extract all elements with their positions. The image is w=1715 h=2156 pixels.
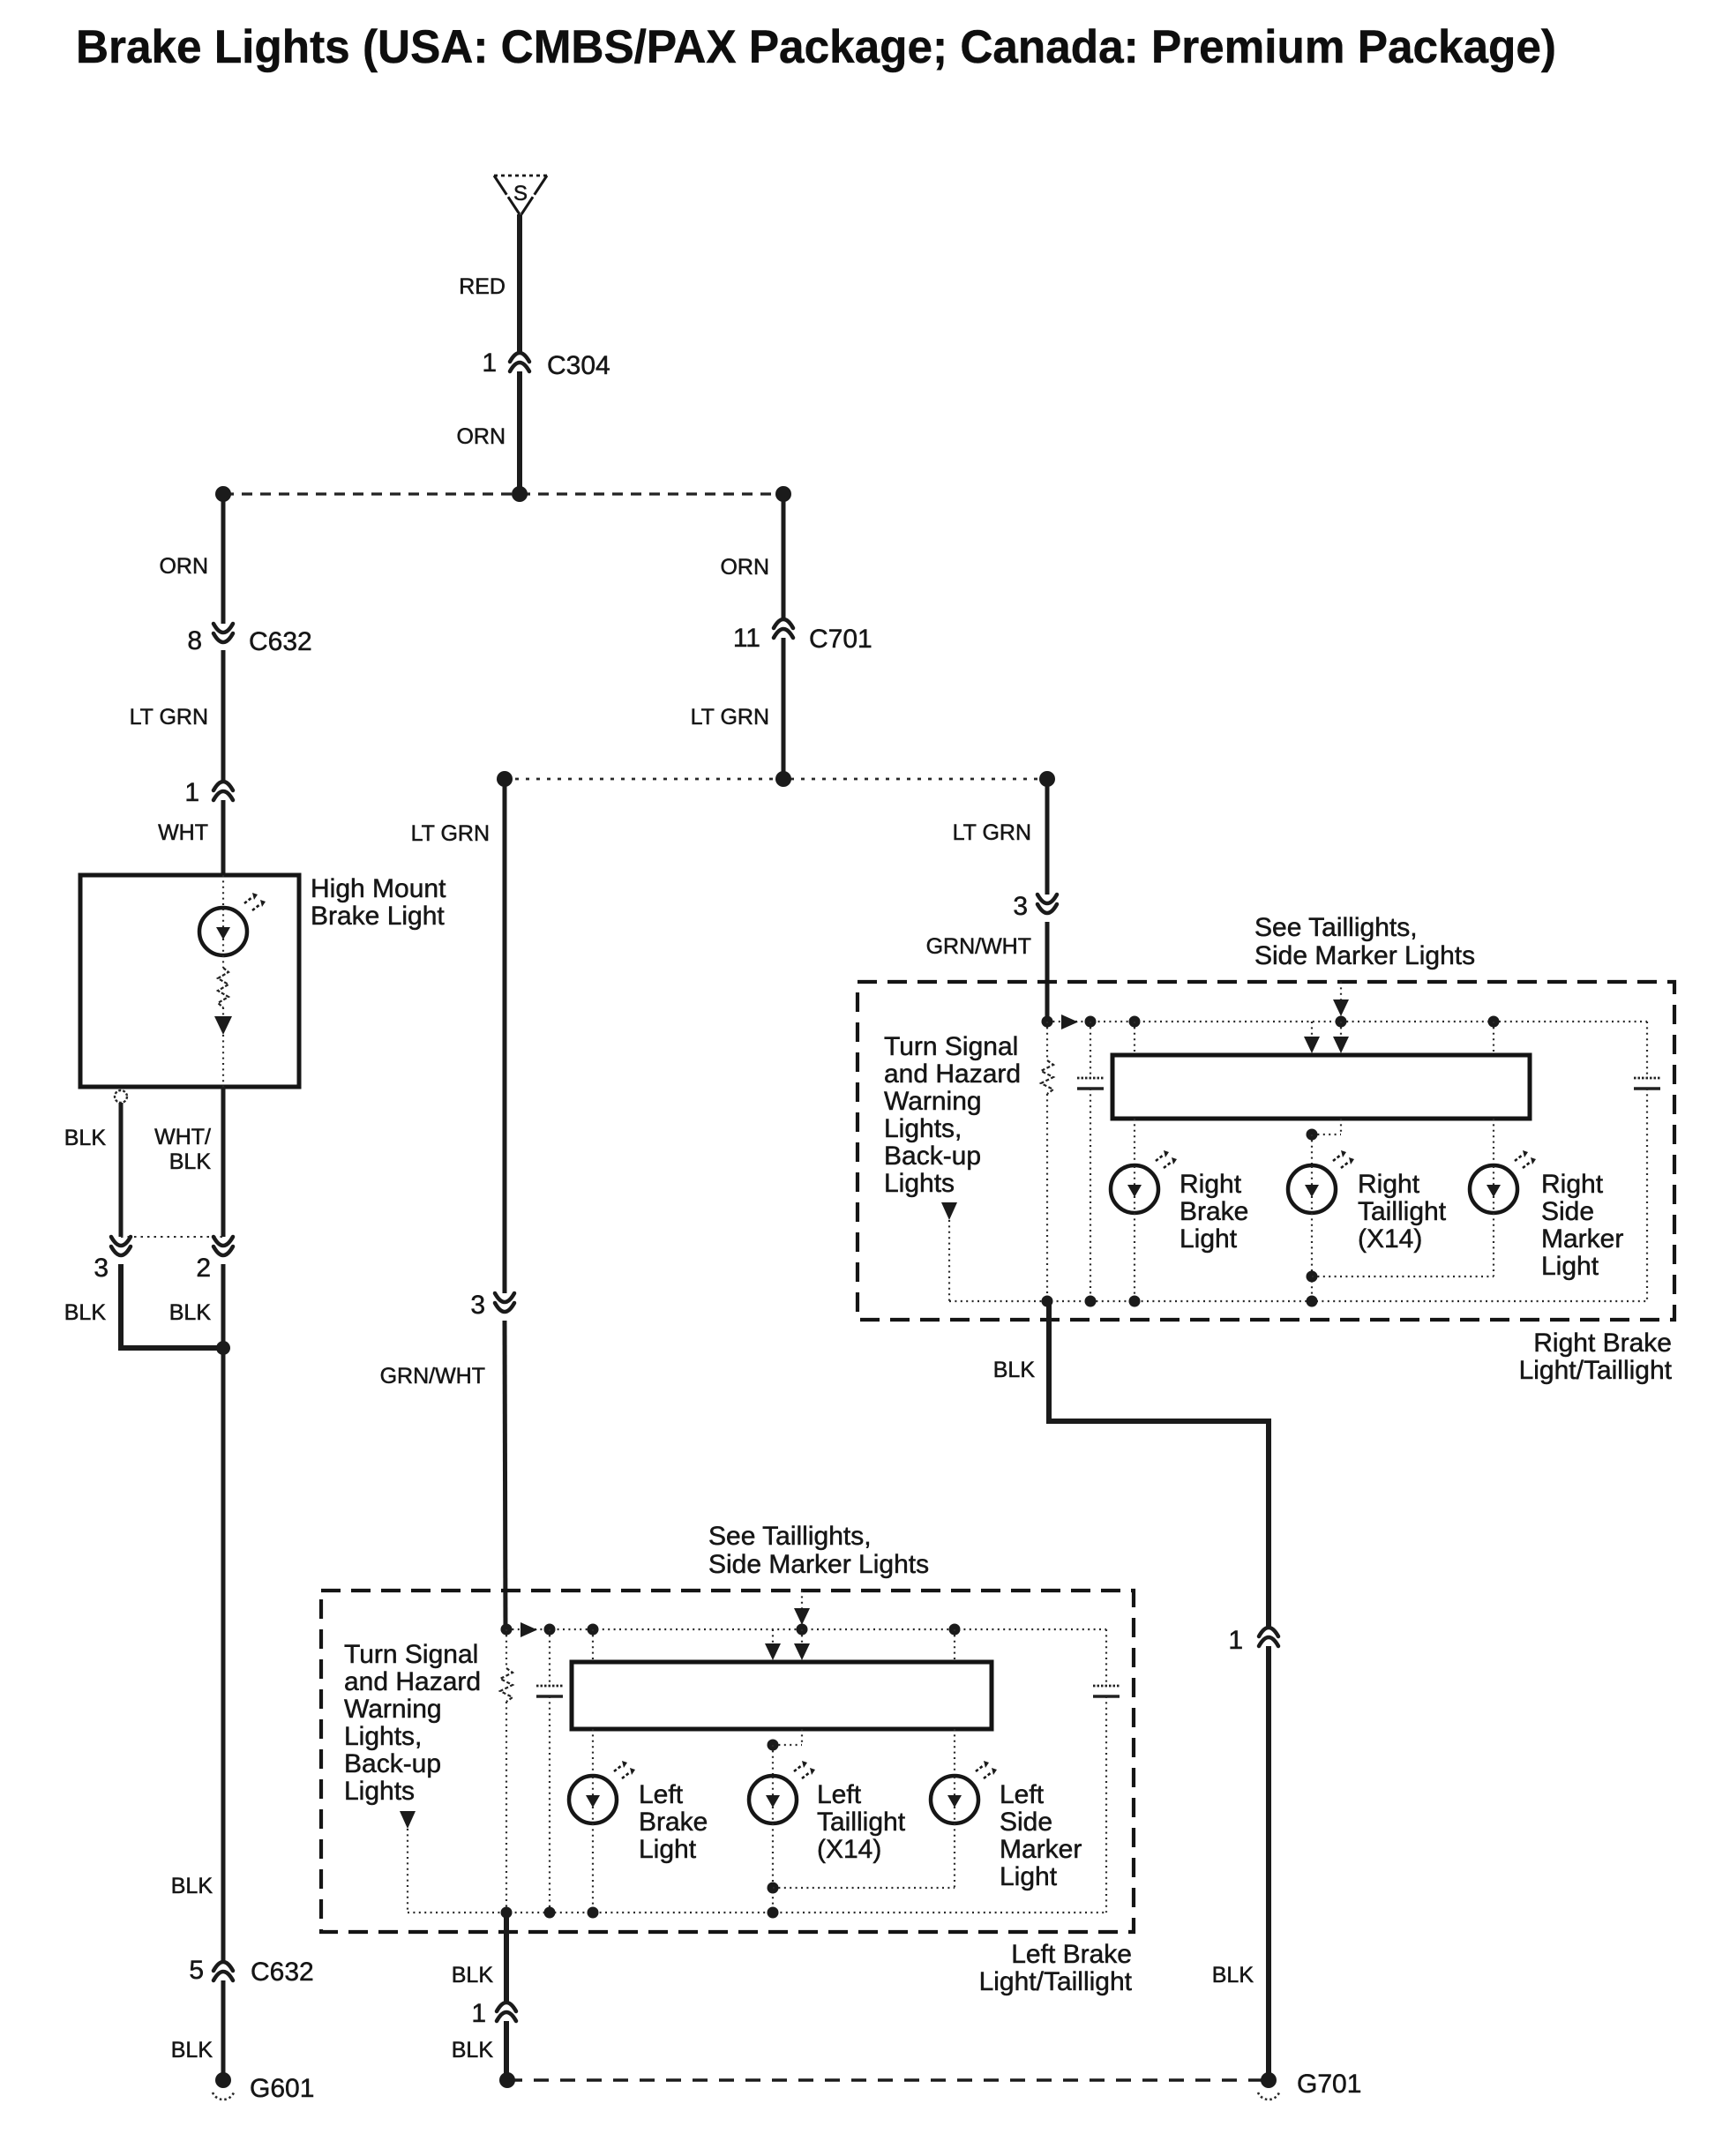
pin bubble at box bottom left: [115, 1090, 127, 1103]
bulb high mount brake light: [199, 893, 266, 955]
wire RED from source to C304: [517, 214, 522, 353]
wire ORN from C304 to bus node A: [517, 371, 522, 494]
filament squiggle: [222, 955, 224, 968]
connector C632 chevrons down: [213, 624, 233, 642]
svg-text:Side Marker Lights: Side Marker Lights: [708, 1550, 929, 1579]
reference entry arrow left box: [801, 1591, 803, 1610]
svg-text:Marker: Marker: [1541, 1224, 1623, 1254]
connector chevrons pin 2: [213, 1237, 233, 1255]
svg-text:Left: Left: [639, 1780, 684, 1809]
svg-text:C701: C701: [809, 625, 872, 654]
left box dashed border: [321, 1591, 1134, 1932]
svg-text:(X14): (X14): [817, 1835, 881, 1864]
svg-text:WHT: WHT: [158, 820, 208, 845]
wire BLK down from pin 2: [221, 1264, 226, 1962]
bottom rail node 1 left: [501, 1907, 513, 1919]
svg-text:Marker: Marker: [1000, 1835, 1082, 1864]
connector chevrons down center: [495, 1293, 514, 1312]
svg-text:5: 5: [189, 1956, 204, 1985]
dotted wire from arrow to bottom rail: [948, 1220, 950, 1301]
power source S: [494, 176, 547, 214]
node right of second bus: [1039, 771, 1055, 787]
svg-text:GRN/WHT: GRN/WHT: [380, 1364, 485, 1389]
svg-text:ORN: ORN: [456, 424, 506, 449]
stub above left brake bulb: [592, 1629, 594, 1662]
right box dashed border: [857, 982, 1674, 1320]
svg-text:3: 3: [94, 1254, 109, 1283]
node right of top bus: [775, 486, 791, 502]
svg-text:WHT/: WHT/: [154, 1125, 211, 1149]
svg-text:3: 3: [1013, 892, 1028, 921]
node A center of top bus: [512, 486, 528, 502]
bottom rail node 4 left: [768, 1907, 779, 1919]
wire WHT/BLK from box bottom: [221, 1087, 226, 1237]
svg-text:BLK: BLK: [169, 1149, 212, 1174]
connector chevrons up center ground run: [497, 2003, 516, 2021]
capacitor left of left box: [549, 1629, 550, 1686]
rail node 5: [1488, 1016, 1500, 1028]
svg-text:Side: Side: [1000, 1808, 1052, 1837]
svg-text:Warning: Warning: [344, 1695, 442, 1724]
svg-text:G701: G701: [1297, 2070, 1361, 2099]
svg-text:GRN/WHT: GRN/WHT: [926, 934, 1031, 959]
reference arrow down in right box: [941, 1202, 957, 1220]
svg-text:Light/Taillight: Light/Taillight: [979, 1967, 1133, 1996]
rail node 4 left box: [797, 1624, 808, 1636]
connector joint dotted line: [121, 1236, 223, 1238]
connector chevrons pin 3: [111, 1237, 131, 1255]
stub arrow into module 2 left: [801, 1629, 803, 1644]
bulb bottom drop right brake: [1134, 1213, 1135, 1301]
taillight to side marker link left: [768, 1883, 779, 1894]
svg-text:BLK: BLK: [64, 1300, 107, 1325]
svg-text:BLK: BLK: [452, 1963, 494, 1988]
wire BLK exit right box elbow: [1049, 1301, 1269, 1628]
svg-text:Right: Right: [1180, 1170, 1242, 1199]
rail node 3 left box: [588, 1624, 599, 1636]
svg-text:Warning: Warning: [884, 1087, 982, 1116]
node center of second bus: [775, 771, 791, 787]
svg-text:C632: C632: [249, 627, 312, 656]
bottom rail node 3 left: [588, 1907, 599, 1919]
wire GRN/WHT into right box: [1045, 922, 1050, 1022]
bulb left brake light: [569, 1761, 635, 1823]
wire ORN right branch: [782, 494, 786, 619]
stub above right side marker bulb: [1493, 1022, 1494, 1055]
wire BLK down to G701: [1266, 1646, 1271, 2080]
svg-text:S: S: [513, 182, 528, 206]
wire WHT into High Mount Brake Light: [221, 800, 226, 875]
svg-text:Brake: Brake: [639, 1808, 708, 1837]
svg-text:BLK: BLK: [1212, 1963, 1254, 1988]
svg-text:Brake Lights (USA: CMBS/PAX Pa: Brake Lights (USA: CMBS/PAX Package; Can…: [76, 21, 1556, 73]
svg-text:ORN: ORN: [720, 555, 769, 580]
svg-text:Taillight: Taillight: [817, 1808, 906, 1837]
stub arrow into module 1 left: [772, 1629, 774, 1644]
module rectangle left box: [572, 1662, 992, 1729]
wire BLK to bottom node: [504, 2021, 509, 2080]
svg-text:and Hazard: and Hazard: [884, 1059, 1021, 1089]
taillight to side marker link: [1307, 1271, 1318, 1283]
ground G601: [213, 2072, 234, 2100]
top internal rail left box: [506, 1628, 1106, 1630]
svg-text:C304: C304: [547, 351, 610, 380]
svg-text:Brake: Brake: [1180, 1197, 1248, 1226]
svg-text:Lights: Lights: [884, 1169, 955, 1198]
dotted wire from arrow to bottom rail left box: [407, 1829, 408, 1913]
bulb right brake light: [1111, 1150, 1177, 1213]
svg-text:See Taillights,: See Taillights,: [708, 1522, 872, 1551]
bottom internal rail right box: [949, 1300, 1647, 1302]
svg-text:Light: Light: [639, 1835, 697, 1864]
capacitor right of left box: [1105, 1629, 1107, 1686]
svg-text:Light: Light: [1180, 1224, 1238, 1254]
stub arrow into module 1: [1311, 1022, 1313, 1037]
svg-text:See Taillights,: See Taillights,: [1254, 913, 1418, 942]
connector chevrons down right: [1037, 895, 1057, 913]
svg-text:2: 2: [196, 1254, 211, 1283]
rail node 4: [1336, 1016, 1347, 1028]
wire BLK from pin bubble: [119, 1103, 124, 1237]
label Right Side Marker Light: [1541, 1170, 1623, 1281]
svg-text:Lights,: Lights,: [884, 1114, 962, 1143]
svg-text:Turn Signal: Turn Signal: [884, 1032, 1018, 1061]
svg-text:Lights,: Lights,: [344, 1722, 422, 1751]
rail arrow right: [1061, 1014, 1078, 1029]
rail node 2: [1085, 1016, 1097, 1028]
bulb left taillight: [749, 1761, 815, 1823]
svg-text:Turn Signal: Turn Signal: [344, 1640, 478, 1669]
bottom rail node 2: [1085, 1296, 1097, 1307]
top internal rail right box: [1047, 1021, 1647, 1022]
svg-text:Back-up: Back-up: [884, 1142, 981, 1171]
stub above right brake bulb: [1134, 1022, 1135, 1055]
left brake bulb feed: [592, 1729, 594, 1776]
svg-text:11: 11: [733, 624, 760, 653]
wire BLK to ground: [221, 1980, 226, 2080]
capacitor right of right box: [1646, 1022, 1648, 1078]
svg-text:LT GRN: LT GRN: [411, 821, 490, 846]
bulb right taillight: [1288, 1150, 1354, 1213]
bottom rail node 2 left: [544, 1907, 556, 1919]
svg-text:Light: Light: [1541, 1252, 1599, 1281]
module rectangle right box: [1112, 1055, 1530, 1119]
label Left Side Marker Light: [1000, 1780, 1082, 1891]
label Left Brake Light: [639, 1780, 708, 1864]
svg-text:Light/Taillight: Light/Taillight: [1519, 1356, 1673, 1385]
stub arrow into module 2: [1340, 1022, 1342, 1037]
svg-text:BLK: BLK: [171, 1874, 213, 1898]
wire LT GRN center branch long: [503, 779, 507, 1293]
connector chevrons up right ground run: [1259, 1628, 1278, 1646]
junction node: [216, 1341, 230, 1355]
wire LT GRN down to bus B: [782, 638, 786, 779]
stub above left side marker bulb: [954, 1629, 955, 1662]
svg-text:RED: RED: [459, 274, 506, 299]
rail node 3: [1129, 1016, 1141, 1028]
svg-text:1: 1: [471, 1999, 486, 2028]
svg-text:BLK: BLK: [171, 2038, 213, 2062]
wire LT GRN right box feed: [1045, 779, 1050, 895]
svg-text:Side: Side: [1541, 1197, 1594, 1226]
svg-text:BLK: BLK: [452, 2038, 494, 2062]
svg-text:Back-up: Back-up: [344, 1749, 441, 1778]
bus wire dashed horizontal top: [223, 492, 783, 495]
rail arrow right left box: [520, 1622, 537, 1637]
bulb right side marker light: [1470, 1150, 1536, 1213]
bulb bottom drop right taillight: [1311, 1213, 1313, 1301]
svg-text:BLK: BLK: [169, 1300, 212, 1325]
svg-text:BLK: BLK: [64, 1126, 107, 1150]
svg-text:1: 1: [482, 348, 497, 378]
svg-text:8: 8: [187, 626, 202, 655]
bottom internal rail left box: [408, 1912, 1106, 1913]
connector C632 chevrons up: [213, 1962, 233, 1980]
label Right Brake Light: [1180, 1170, 1248, 1254]
reference entry arrow right box: [1340, 982, 1342, 1001]
svg-text:3: 3: [470, 1291, 485, 1320]
bottom rail node 3: [1129, 1296, 1141, 1307]
svg-text:Left Brake: Left Brake: [1011, 1940, 1132, 1969]
right brake bulb feed: [1134, 1119, 1135, 1165]
bottom node center: [499, 2072, 515, 2088]
rail node 5 left box: [949, 1624, 961, 1636]
left side marker bulb feed: [954, 1729, 955, 1776]
svg-text:ORN: ORN: [159, 554, 208, 579]
bulb bottom drop left taillight: [772, 1823, 774, 1913]
wire BLK exit left box: [504, 1913, 509, 2003]
bulb bottom drop left brake: [592, 1823, 594, 1913]
svg-text:Right: Right: [1541, 1170, 1604, 1199]
bracket below module left box: [801, 1729, 803, 1745]
bottom rail node 1: [1042, 1296, 1053, 1307]
svg-text:Side Marker Lights: Side Marker Lights: [1254, 941, 1475, 970]
svg-text:Right Brake: Right Brake: [1533, 1329, 1672, 1358]
connector C701 chevrons up: [774, 619, 793, 638]
node left of top bus: [215, 486, 231, 502]
label Left Taillight X14: [817, 1780, 906, 1864]
rail node 1: [1042, 1016, 1053, 1028]
svg-text:Brake Light: Brake Light: [311, 902, 445, 931]
bus wire dashed horizontal second: [505, 778, 1047, 781]
bracket below module right box: [1340, 1119, 1342, 1134]
wire GRN/WHT into left box: [505, 1321, 506, 1630]
svg-text:Taillight: Taillight: [1358, 1197, 1447, 1226]
lead into bulb: [222, 875, 224, 907]
capacitor left right box: [1090, 1022, 1091, 1078]
svg-text:LT GRN: LT GRN: [953, 820, 1031, 845]
resistor left box: [506, 1629, 507, 1668]
svg-text:Left: Left: [817, 1780, 862, 1809]
svg-text:BLK: BLK: [993, 1358, 1036, 1382]
wire BLK elbow join: [121, 1264, 223, 1348]
label Turn Signal and Hazard Warning Lights Back-up Lights left: [344, 1640, 481, 1806]
svg-text:Light: Light: [1000, 1862, 1058, 1891]
connector C304 chevrons: [510, 353, 529, 371]
rail node 2 left box: [544, 1624, 556, 1636]
svg-text:C632: C632: [251, 1958, 314, 1987]
svg-text:1: 1: [1228, 1626, 1243, 1655]
bulb left side marker light: [931, 1761, 997, 1823]
wire ORN left branch: [221, 494, 226, 624]
right side marker bulb feed: [1493, 1119, 1494, 1165]
svg-text:(X14): (X14): [1358, 1224, 1422, 1254]
diode arrow down inside box: [222, 1007, 224, 1016]
svg-text:Right: Right: [1358, 1170, 1420, 1199]
wire LT GRN left branch: [221, 650, 226, 782]
label Turn Signal and Hazard Warning Lights Back-up Lights: [884, 1032, 1021, 1198]
svg-text:and Hazard: and Hazard: [344, 1667, 481, 1696]
svg-text:High Mount: High Mount: [311, 874, 446, 903]
node left of second bus: [497, 771, 513, 787]
svg-text:LT GRN: LT GRN: [130, 705, 208, 730]
High Mount Brake Light box: [80, 875, 299, 1087]
rail node 1 left box: [501, 1624, 513, 1636]
bottom dashed bus to G701: [507, 2078, 1269, 2081]
svg-text:Lights: Lights: [344, 1777, 415, 1806]
label Right Taillight X14: [1358, 1170, 1447, 1254]
svg-text:G601: G601: [250, 2074, 314, 2103]
svg-text:LT GRN: LT GRN: [691, 705, 769, 730]
svg-text:Left: Left: [1000, 1780, 1045, 1809]
svg-text:1: 1: [184, 778, 199, 807]
reference arrow down in left box: [400, 1811, 416, 1829]
ground G701: [1258, 2072, 1279, 2100]
bottom rail node 4: [1307, 1296, 1318, 1307]
resistor right box: [1046, 1022, 1048, 1060]
